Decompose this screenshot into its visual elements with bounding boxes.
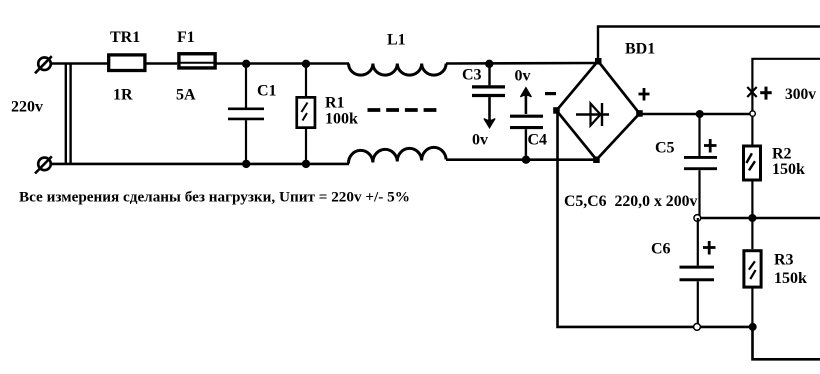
choke L1 bottom winding [348, 147, 446, 163]
bridge rectifier BD1 diamond [557, 61, 640, 160]
svg-text:F1: F1 [177, 29, 195, 46]
thermistor TR1 [109, 55, 145, 71]
wire bottom terminal to L1 [50, 163, 349, 166]
svg-text:5A: 5A [176, 87, 196, 104]
choke L1 top winding [349, 64, 447, 76]
svg-text:R1: R1 [325, 95, 345, 112]
resistor R3 [744, 218, 761, 327]
label plus at BD1 [639, 88, 650, 101]
svg-text:C4: C4 [528, 132, 548, 149]
label plus at 300v [760, 87, 772, 100]
open node middle left [694, 215, 701, 222]
svg-text:220v: 220v [11, 99, 43, 116]
open node bottom left [694, 324, 701, 331]
capacitor C6 [680, 218, 715, 327]
svg-text:C6: C6 [651, 241, 671, 258]
capacitor C3 [472, 64, 505, 96]
capacitor C1 [228, 64, 264, 164]
svg-text:150k: 150k [774, 270, 807, 287]
wire F1 to L1 [216, 62, 349, 65]
svg-text:0v: 0v [515, 68, 531, 85]
label plus at C6 [703, 241, 716, 255]
test arrow 0v at C3 [484, 97, 495, 128]
test arrow 0v at C4 [520, 88, 531, 114]
svg-text:1R: 1R [113, 87, 133, 104]
wire plus output [640, 113, 751, 116]
node R1 bottom [302, 160, 310, 168]
wire top L1 to bridge [446, 62, 598, 65]
svg-text:BD1: BD1 [625, 41, 655, 58]
svg-text:R2: R2 [772, 146, 792, 163]
node R1 top [302, 60, 310, 68]
svg-text:Все измерения сделаны без нагр: Все измерения сделаны без нагрузки, Uпит… [19, 189, 410, 206]
wire 300v branch [752, 59, 820, 145]
svg-text:C5,C6 220,0 x 200v: C5,C6 220,0 x 200v [564, 193, 697, 210]
svg-text:C5: C5 [655, 140, 675, 157]
resistor R1 [297, 64, 315, 164]
bridge vertex pads [553, 58, 643, 163]
choke L1 core dashed line [368, 108, 437, 112]
input terminal bottom [35, 156, 52, 173]
label minus at bridge [545, 92, 556, 95]
diode inside BD1 [576, 103, 609, 126]
open node at 300v branch [750, 111, 755, 116]
node C5 top [696, 110, 704, 118]
node C3 [485, 60, 493, 68]
fuse F1 [177, 54, 217, 68]
node bottom R3 [749, 323, 757, 331]
capacitor C5 [684, 114, 717, 218]
wire bottom exit [753, 327, 820, 359]
wire bridge top tap [598, 27, 820, 62]
node middle R2 R3 [748, 214, 756, 222]
svg-text:100k: 100k [325, 111, 358, 128]
resistor R2 [744, 146, 761, 218]
mains cable double line [66, 64, 71, 164]
svg-text:TR1: TR1 [110, 29, 140, 46]
svg-text:C3: C3 [462, 67, 482, 84]
node C1 bottom [242, 160, 250, 168]
label plus at C5 [704, 139, 717, 153]
test mark x on 300v branch [747, 87, 756, 97]
wire top terminal to TR1 [50, 62, 108, 65]
capacitor C4 [510, 116, 543, 160]
wire middle output [698, 217, 820, 220]
wire bottom L1 to bridge [446, 158, 597, 161]
svg-text:0v: 0v [472, 132, 488, 149]
node C4 bottom [522, 156, 530, 164]
svg-text:L1: L1 [387, 32, 406, 49]
svg-text:300v: 300v [785, 86, 816, 103]
node C1 top [242, 60, 250, 68]
svg-text:150k: 150k [772, 161, 805, 178]
wire negative rail from bridge [558, 112, 753, 327]
wire TR1 to F1 [147, 62, 178, 65]
svg-text:R3: R3 [774, 252, 794, 269]
input terminal top [35, 56, 52, 73]
svg-text:C1: C1 [257, 83, 277, 100]
